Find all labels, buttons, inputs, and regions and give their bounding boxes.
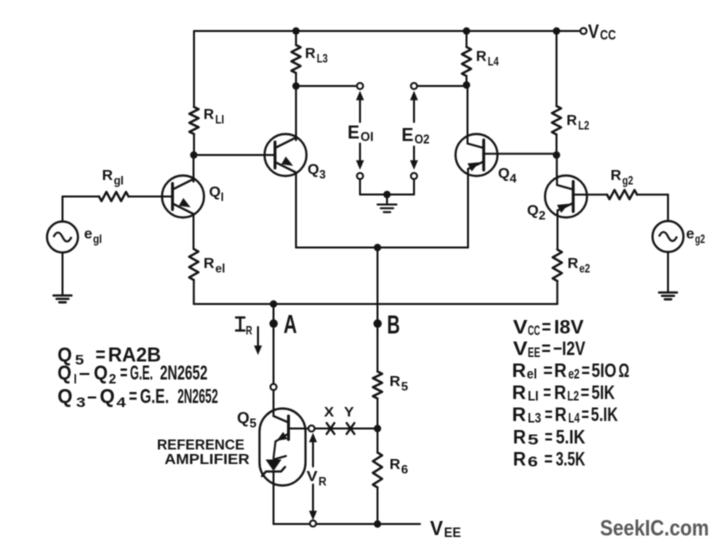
svg-text:LI: LI (215, 113, 224, 127)
svg-text:4: 4 (116, 394, 126, 410)
svg-text:3.5K: 3.5K (556, 449, 586, 470)
svg-text:R: R (555, 405, 567, 426)
svg-text:g2: g2 (622, 174, 633, 188)
svg-text:R: R (305, 45, 316, 62)
svg-text:=: = (542, 318, 551, 339)
svg-text:L3: L3 (528, 411, 542, 426)
svg-text:V: V (513, 318, 528, 339)
svg-text:Q: Q (94, 362, 108, 384)
svg-text:=: = (542, 339, 551, 360)
svg-text:A: A (284, 309, 298, 339)
svg-text:Q: Q (237, 410, 249, 427)
svg-text:3: 3 (319, 168, 326, 182)
svg-text:4: 4 (510, 172, 517, 186)
svg-text:B: B (387, 310, 400, 340)
svg-text:G.E.: G.E. (130, 362, 153, 384)
svg-text:X: X (324, 404, 335, 420)
svg-text:R: R (567, 112, 578, 129)
svg-text:R: R (204, 106, 215, 123)
svg-text:R: R (513, 427, 526, 448)
svg-text:=: = (120, 362, 128, 384)
svg-text:2: 2 (539, 209, 546, 223)
svg-text:R: R (512, 405, 526, 426)
svg-text:V: V (588, 22, 599, 43)
svg-text:6: 6 (401, 463, 408, 477)
svg-text:R: R (204, 255, 215, 272)
svg-text:R: R (554, 383, 566, 404)
svg-text:L3: L3 (317, 52, 328, 66)
svg-text:R: R (512, 383, 526, 404)
svg-text:EE: EE (528, 345, 541, 360)
svg-text:E: E (348, 123, 360, 143)
svg-text:−I2V: −I2V (553, 339, 586, 360)
svg-text:=: = (581, 383, 590, 404)
svg-text:=: = (543, 383, 551, 404)
svg-text:R: R (568, 255, 579, 272)
svg-text:–: – (79, 362, 90, 384)
svg-text:5: 5 (528, 432, 539, 448)
svg-text:EE: EE (444, 524, 461, 540)
svg-text:R: R (390, 456, 401, 473)
svg-text:R: R (246, 326, 253, 338)
svg-text:R: R (512, 361, 526, 382)
svg-text:el: el (527, 367, 537, 382)
svg-text:2N2652: 2N2652 (160, 362, 208, 384)
svg-text:g2: g2 (695, 232, 705, 246)
svg-text:3: 3 (76, 394, 86, 410)
svg-text:=: = (545, 427, 553, 448)
svg-text:L4: L4 (488, 55, 499, 69)
svg-text:Q: Q (100, 386, 115, 408)
svg-text:2: 2 (109, 371, 117, 387)
svg-text:R: R (476, 48, 487, 65)
svg-text:LI: LI (528, 389, 539, 404)
svg-text:e2: e2 (568, 367, 580, 382)
svg-text:L2: L2 (578, 119, 589, 133)
svg-text:I8V: I8V (554, 318, 584, 339)
svg-text:R: R (390, 373, 401, 390)
svg-text:L4: L4 (568, 411, 580, 426)
svg-text:Q: Q (308, 161, 320, 178)
svg-text:Q: Q (58, 386, 73, 408)
svg-text:L2: L2 (567, 389, 579, 404)
svg-text:I: I (74, 371, 77, 387)
svg-text:Y: Y (344, 404, 355, 420)
svg-text:5.IK: 5.IK (591, 405, 618, 426)
svg-text:CC: CC (600, 28, 616, 43)
svg-text:=: = (129, 386, 137, 408)
svg-text:Q: Q (209, 184, 221, 201)
svg-text:5: 5 (250, 417, 257, 431)
svg-text:R: R (102, 167, 113, 184)
svg-text:E: E (402, 125, 414, 145)
svg-text:R: R (319, 475, 327, 489)
svg-text:=: = (545, 405, 553, 426)
svg-text:5IK: 5IK (592, 383, 616, 404)
svg-text:CC: CC (528, 323, 541, 338)
svg-text:e: e (686, 226, 694, 243)
svg-text:V: V (430, 518, 444, 540)
svg-text:=: = (582, 405, 590, 426)
svg-text:el: el (215, 262, 225, 276)
svg-text:=: = (544, 449, 552, 470)
svg-text:G.E.: G.E. (140, 386, 169, 408)
svg-text:I: I (221, 190, 224, 204)
svg-text:5IO: 5IO (592, 361, 617, 382)
svg-text:R: R (513, 449, 526, 470)
svg-text:–: – (87, 386, 97, 408)
svg-text:R: R (554, 361, 567, 382)
svg-text:e: e (84, 226, 92, 243)
svg-text:6: 6 (528, 454, 538, 470)
svg-text:AMPLIFIER: AMPLIFIER (165, 452, 251, 468)
svg-text:=: = (543, 361, 552, 382)
svg-text:5.IK: 5.IK (556, 427, 586, 448)
svg-text:2N2652: 2N2652 (178, 386, 219, 408)
svg-text:e2: e2 (579, 262, 590, 276)
svg-text:gI: gI (114, 174, 124, 188)
svg-text:Q: Q (498, 165, 510, 182)
svg-text:Q: Q (58, 362, 72, 384)
svg-text:Q: Q (527, 202, 539, 219)
svg-text:gI: gI (93, 232, 102, 246)
svg-text:5: 5 (401, 380, 408, 394)
svg-text:O2: O2 (415, 132, 430, 147)
svg-text:V: V (513, 339, 528, 360)
svg-text:R: R (611, 167, 622, 184)
svg-text:SeekIC.com: SeekIC.com (600, 516, 709, 541)
svg-text:V: V (307, 468, 318, 485)
svg-text:Ω: Ω (619, 361, 630, 382)
svg-text:=: = (582, 361, 590, 382)
svg-text:OI: OI (361, 129, 374, 144)
